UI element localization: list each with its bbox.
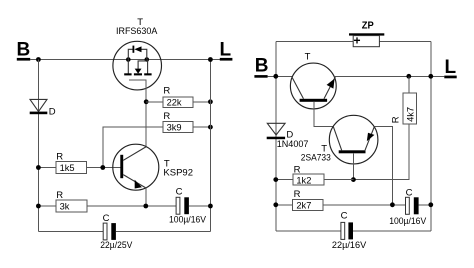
node: 1k2 left junction <box>273 177 278 182</box>
resistor R 2k7 <box>293 189 323 210</box>
node: L junction <box>208 57 213 62</box>
svg-text:2SA733: 2SA733 <box>301 153 331 163</box>
wire: B rail to T1 <box>268 75 292 77</box>
wire: MOSFET substrate stub <box>138 61 147 69</box>
wire: 22k right lead <box>193 101 210 103</box>
KSP92 base bar <box>120 155 123 178</box>
svg-text:B: B <box>17 40 31 61</box>
svg-text:2k7: 2k7 <box>296 200 311 210</box>
wire: left rail (right circuit) <box>275 42 277 231</box>
svg-text:+: + <box>354 34 361 48</box>
node: 2k7 left junction <box>273 202 278 207</box>
svg-text:3k9: 3k9 <box>167 123 182 133</box>
svg-text:R: R <box>56 151 63 162</box>
wire: T1 base down and right to T2 <box>314 102 333 127</box>
svg-text:D: D <box>49 107 56 118</box>
wire: top rail B to L <box>30 59 220 61</box>
node: emitter junction <box>143 204 148 209</box>
wire: T1 right lead <box>324 77 335 99</box>
wire: T2 base down <box>352 153 354 179</box>
capacitor C 100u/16V (left circuit) <box>169 186 207 224</box>
node: T2 base / 1k2 junction <box>351 177 356 182</box>
wire: right rail (right circuit) <box>430 42 432 231</box>
terminal L (left circuit) <box>220 40 233 61</box>
capacitor C 22u/16V <box>332 210 367 250</box>
wire: bottom rail right part <box>116 230 210 232</box>
wire: 2k7 left lead <box>276 204 293 206</box>
node: cap right junction <box>208 204 213 209</box>
capacitor C 100u/16V (right circuit) <box>389 188 427 226</box>
KSP92 emitter arrow <box>135 180 142 189</box>
node: MOSFET source junction <box>145 57 150 62</box>
node: right rail junction <box>428 74 433 79</box>
node: 22k right junction <box>208 99 213 104</box>
svg-text:22k: 22k <box>167 98 182 108</box>
svg-text:4k7: 4k7 <box>406 107 416 122</box>
resistor R 22k <box>163 86 193 108</box>
terminal B (right circuit) <box>254 56 268 78</box>
resistor R 4k7 <box>391 93 417 124</box>
wire: bottom rail left part <box>38 230 103 232</box>
wire: T2 right lead <box>365 127 374 151</box>
svg-text:1N4007: 1N4007 <box>277 139 309 149</box>
svg-text:R: R <box>391 116 402 123</box>
T2 base bar <box>339 150 366 153</box>
wire: cap right lead <box>419 204 431 206</box>
body diode triangle <box>134 46 141 52</box>
wire: 1k2 right lead <box>324 179 353 181</box>
wire: 1k5 right lead to base <box>87 167 122 169</box>
MOSFET U1 circle <box>113 41 162 90</box>
node: B junction <box>36 57 41 62</box>
resistor R 1k5 <box>56 151 87 173</box>
wire: 3k9 right lead <box>193 126 210 128</box>
node: 3k9 right junction <box>208 125 213 130</box>
wire: top rail right part <box>379 41 430 43</box>
wire: 4k7 top lead <box>408 76 410 93</box>
svg-text:22µ/16V: 22µ/16V <box>332 240 367 250</box>
wire: 2k7 right lead to cap <box>323 204 405 206</box>
MOSFET substrate arrow <box>135 69 142 74</box>
wire: KSP92 emitter lead <box>123 175 146 188</box>
body diode cathode bar <box>133 46 135 53</box>
svg-text:IRFS630A: IRFS630A <box>116 26 158 36</box>
svg-text:R: R <box>163 86 170 97</box>
wire: top rail left part <box>276 41 353 43</box>
transistor Q3 (T2) 2SA733 circle <box>329 115 378 164</box>
node: 3k left junction <box>36 204 41 209</box>
MOSFET channel bar right <box>144 73 151 75</box>
resistor R 3k <box>56 190 87 212</box>
svg-text:KSP92: KSP92 <box>163 168 193 178</box>
wire: KSP92 emitter down <box>145 188 147 207</box>
wire: T1 left lead <box>292 77 304 99</box>
wire: MOSFET gate line <box>129 80 146 147</box>
diode D 1N4007 <box>267 123 309 149</box>
svg-text:C: C <box>103 213 110 224</box>
T1 emitter arrow <box>327 79 335 89</box>
wire: T2 left lead <box>333 126 342 150</box>
svg-text:100µ/16V: 100µ/16V <box>169 214 207 224</box>
node: 1k5 left junction <box>36 165 41 170</box>
wire: left rail (B down to bottom rail) <box>37 60 39 232</box>
wire: KSP92 collector lead <box>123 147 146 161</box>
diode D <box>30 99 56 117</box>
node: MOSFET drain junction <box>126 57 131 62</box>
svg-text:R: R <box>163 111 170 122</box>
T1 base bar <box>300 99 328 102</box>
transistor Q1 KSP92 circle <box>113 144 159 190</box>
svg-text:3k: 3k <box>60 202 70 212</box>
terminal L (right circuit) <box>444 57 456 78</box>
svg-text:ZP: ZP <box>362 20 374 32</box>
wire: 4k7 bottom lead to base node <box>353 124 408 179</box>
wire: 1k2 left lead <box>276 179 293 181</box>
wire: cap right lead <box>189 205 211 207</box>
svg-text:22µ/25V: 22µ/25V <box>100 240 133 250</box>
wire: 1k5 left lead <box>38 167 56 169</box>
svg-text:R: R <box>294 189 301 200</box>
wire: right rail L down to bottom <box>209 60 211 232</box>
wire: body diode left stub <box>128 49 133 59</box>
wire: 22k left lead <box>146 101 163 103</box>
wire: body diode right stub <box>142 49 147 59</box>
wire: 3k left lead <box>38 205 56 207</box>
svg-text:C: C <box>341 210 348 221</box>
wire: T2 emitter right and down <box>374 126 392 205</box>
transistor Q2 (T1) circle <box>290 63 336 109</box>
MOSFET channel bar left <box>124 73 131 75</box>
terminal B (left circuit) <box>17 40 31 61</box>
wire: MOSFET source lead down <box>147 60 149 74</box>
node: 4k7 top junction <box>406 74 411 79</box>
svg-text:1k2: 1k2 <box>296 175 311 185</box>
node: B junction (right) <box>273 74 278 79</box>
wire: 3k9 left lead to base node <box>103 127 163 167</box>
svg-text:100µ/16V: 100µ/16V <box>389 216 427 226</box>
svg-text:L: L <box>445 57 457 78</box>
wire: MOSFET drain lead down <box>127 60 129 74</box>
svg-text:B: B <box>255 56 269 77</box>
resistor R 3k9 <box>163 111 193 133</box>
node: gate / 22k junction <box>144 99 149 104</box>
wire: 3k right lead to emitter node <box>87 205 176 207</box>
source ZP <box>349 20 384 48</box>
wire: T1 to L rail <box>335 75 444 77</box>
MOSFET channel bar middle <box>134 73 142 75</box>
node: emitter row junction <box>390 202 395 207</box>
svg-text:R: R <box>56 190 63 201</box>
resistor R 1k2 <box>293 165 324 186</box>
wire: bottom rail right part (right circuit) <box>353 230 431 232</box>
node: base junction <box>100 165 105 170</box>
svg-text:C: C <box>176 186 183 197</box>
svg-text:T: T <box>305 51 311 62</box>
capacitor C 22u/25V <box>100 213 133 250</box>
svg-text:1k5: 1k5 <box>60 163 75 173</box>
node: cap right junction <box>428 202 433 207</box>
wire: bottom rail left part (right circuit) <box>276 230 341 232</box>
T2 emitter arrow <box>367 133 375 142</box>
svg-text:L: L <box>220 40 232 61</box>
